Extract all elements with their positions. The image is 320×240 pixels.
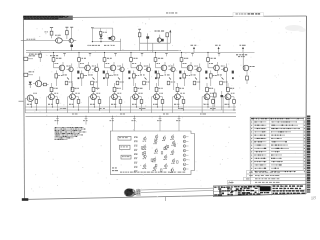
U10 bottom label row <box>120 171 122 174</box>
node: input terminal J1 <box>21 39 36 41</box>
wire: bus tap arrow 2 <box>215 45 220 53</box>
wire: bus drop 5 <box>157 116 162 131</box>
wire: cluster2 top rail <box>92 27 112 29</box>
transistor stage Q7 (row B) <box>154 52 181 90</box>
wire: bus tap arrow 1 <box>191 45 197 53</box>
wire: cluster2 left branch <box>91 28 93 41</box>
wire: lower bus line 4 <box>26 115 237 117</box>
op-amp U1 input gate <box>56 38 70 43</box>
pencil smudge top right <box>285 25 303 31</box>
transistor stage Q16 (row C) <box>131 83 143 113</box>
power symbol +V cluster2 <box>91 27 94 29</box>
relay K2 inside U10 <box>120 145 131 149</box>
op-amp U10 package outline <box>110 131 194 174</box>
wire: cluster2 output line <box>92 41 120 43</box>
net label on lower bus 2 <box>72 113 74 116</box>
transistor stage Q12 (row C) <box>47 83 59 113</box>
border tick mark <box>19 100 24 102</box>
transistor Q2A <box>111 28 115 41</box>
wire: lower bus line 1 <box>26 106 237 108</box>
parts list table text <box>251 118 305 172</box>
wire: row A drop 3 to bus <box>147 43 149 51</box>
sheet left border <box>23 16 24 199</box>
resistor R20 <box>42 83 49 86</box>
transistor Q2 <box>155 31 165 43</box>
transistor stage Q9 (row B) <box>207 52 234 90</box>
wire: power feed row B left stage <box>39 51 42 62</box>
transistor stage Q20 (row C) <box>223 83 235 113</box>
resistor R1 <box>50 31 53 38</box>
net label +SIGNAL IN <box>104 44 106 47</box>
diode CR1 <box>99 35 102 41</box>
wire: output arrow up <box>169 30 171 43</box>
wire: bus drop 1 <box>55 116 59 125</box>
net label SIGNAL bus right end <box>236 54 238 55</box>
approval stamp <box>124 188 141 197</box>
power symbol +V R4 <box>138 29 141 33</box>
resistor R30 <box>214 89 217 108</box>
wire: lower bus line 3 <box>26 112 237 114</box>
power symbol +V Q1 <box>70 27 73 38</box>
wire: row A drop 1 to bus <box>120 42 122 51</box>
revision table rows <box>228 170 306 184</box>
drawing number black box <box>260 186 271 191</box>
net label SIGNAL IN left <box>29 54 31 55</box>
wire: row A drop 2 to bus <box>139 43 141 51</box>
svg-text:A: A <box>228 181 230 185</box>
title header block top-left <box>23 16 73 20</box>
sheet right border <box>305 16 308 194</box>
power symbol +V R2 <box>65 27 68 30</box>
transistor stage Q11 (row C) <box>25 93 37 113</box>
transistor Q1 <box>69 39 76 43</box>
transistor Q21 <box>243 53 254 85</box>
notes text block <box>55 127 87 140</box>
diode CR2 <box>29 82 32 88</box>
sheet top border <box>71 16 307 17</box>
connector tab P1-2 <box>24 71 34 76</box>
wire: upper supply bus <box>26 50 181 52</box>
title block frame <box>213 184 306 196</box>
wire: cluster2 end stub <box>120 39 122 42</box>
capacitor C3 dark <box>162 39 164 42</box>
capacitor C1 <box>70 43 73 51</box>
parts list table frame <box>250 117 305 170</box>
bottom border tick <box>164 197 166 201</box>
transistor stage Q4 (row B) <box>78 52 105 90</box>
net label at bus x=50 <box>50 55 52 56</box>
transistor stage Q6 (row B) <box>130 52 157 90</box>
transistor stage Q5 (row B) <box>103 52 130 90</box>
REF revision box on top border <box>233 13 264 17</box>
net label on lower bus <box>178 107 180 110</box>
transistor stage Q19 (row C) <box>202 83 214 113</box>
power symbol +V R1 <box>50 28 53 32</box>
resistor R2 <box>66 31 69 39</box>
wire: bus drop 2 <box>83 116 88 125</box>
relay K1 inside U10 <box>118 136 131 140</box>
transistor stage Q17 (row C) <box>152 83 164 113</box>
label above U1 <box>55 34 57 37</box>
transistor stage Q15 (row C) <box>110 83 122 113</box>
wire: input lead <box>27 40 56 42</box>
transistor stage Q8 (row B) <box>180 52 207 90</box>
wire: row A drop 4 to bus <box>166 43 168 51</box>
net label -SIGNAL IN <box>88 44 89 47</box>
transistor stage Q13 (row C) <box>68 83 80 113</box>
wire: bus drop 4 <box>131 116 135 131</box>
transistor stage Q3 (row B) <box>52 52 79 90</box>
resistor R4 <box>138 33 141 43</box>
relay K3 inside U10 <box>121 155 131 159</box>
wire: main signal bus <box>26 52 255 54</box>
scan noise speckles <box>28 18 306 197</box>
wire: bus tap arrow 3 <box>240 45 246 53</box>
capacitor C2 <box>146 33 149 43</box>
wire: cluster3 drop to bus <box>152 43 154 52</box>
wire: supersedes line pair <box>141 188 213 190</box>
bottom-left corner mark <box>22 198 29 201</box>
transistor stage Q18 (row C) <box>173 83 185 113</box>
net label on lower bus <box>210 107 212 110</box>
right margin vertical part number strip <box>307 116 310 193</box>
sheet bottom border <box>25 194 307 200</box>
zone label above top border <box>166 12 168 13</box>
net label on lower bus 2 <box>200 113 202 116</box>
net label on lower bus <box>99 107 102 110</box>
net label on lower bus 2 <box>163 113 165 116</box>
transistor stage Q14 (row C) <box>89 83 101 113</box>
net label on lower bus 2 <box>120 113 122 116</box>
connector tab P1-1 <box>24 55 35 60</box>
title block right text SCHEMATIC <box>260 185 305 194</box>
net label on lower bus <box>139 107 141 110</box>
resistor R5 <box>166 33 169 43</box>
U10 pin stubs left column <box>134 137 138 172</box>
transistor Q10 <box>33 77 42 87</box>
U10 bottom-left pin marks <box>112 167 114 170</box>
wire: cluster3 bottom rail <box>140 42 171 44</box>
wire: lower bus line 2 <box>26 109 237 111</box>
title block text cells <box>214 186 260 196</box>
label left of R1 <box>45 31 46 34</box>
resistor R3 <box>100 28 108 34</box>
node junction dots cluster2 <box>92 41 93 42</box>
wire: bus drop 6 <box>176 116 180 131</box>
capacitor C8 <box>221 91 224 110</box>
U10 internal transistor array <box>141 134 188 173</box>
capacitor C2A dark <box>109 37 111 40</box>
wire: bus drop 3 <box>110 116 114 131</box>
net label on lower bus <box>60 107 62 110</box>
